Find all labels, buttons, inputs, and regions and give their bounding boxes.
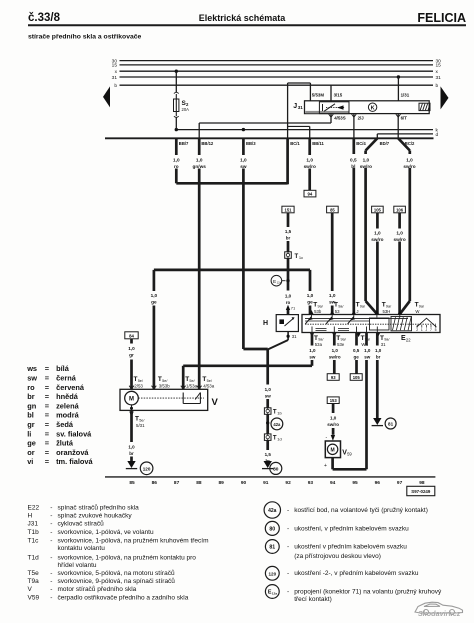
svg-text:třecí kontakt): třecí kontakt) <box>294 596 332 603</box>
svg-text:-: - <box>287 525 289 532</box>
svg-text:1b: 1b <box>277 411 282 416</box>
svg-text:BC/4: BC/4 <box>356 141 366 146</box>
svg-text:motor stíračů předního skla: motor stíračů předního skla <box>58 585 137 593</box>
svg-text:žlutá: žlutá <box>56 439 74 448</box>
svg-text:zelená: zelená <box>56 401 79 410</box>
svg-text:BB/11: BB/11 <box>312 141 324 146</box>
svg-text:31: 31 <box>292 334 297 339</box>
svg-text:53: 53 <box>335 309 340 314</box>
svg-text:4/53a: 4/53a <box>203 383 215 388</box>
svg-text:153: 153 <box>330 398 338 403</box>
svg-text:-: - <box>50 594 52 601</box>
svg-text:=: = <box>45 374 50 383</box>
svg-text:42a: 42a <box>268 508 277 514</box>
svg-text:90: 90 <box>241 480 247 486</box>
svg-text:svorkovnice, 9-pólová, na spín: svorkovnice, 9-pólová, na spínači stírač… <box>58 577 176 585</box>
svg-text:31: 31 <box>381 342 386 347</box>
svg-text:-: - <box>50 537 52 544</box>
svg-text:svorkovnice, 1-pólová, ve vola: svorkovnice, 1-pólová, ve volantu <box>58 529 154 536</box>
svg-text:V: V <box>28 586 33 593</box>
svg-text:bl: bl <box>27 411 34 420</box>
svg-text:svorkovnice, 1-pólová, na pruž: svorkovnice, 1-pólová, na pružném kruhov… <box>58 537 209 544</box>
svg-text:7: 7 <box>430 328 432 332</box>
svg-text:cyklovač stíračů: cyklovač stíračů <box>58 520 105 528</box>
svg-text:31: 31 <box>298 105 304 110</box>
svg-text:=: = <box>45 439 50 448</box>
svg-text:1,0: 1,0 <box>363 158 370 163</box>
svg-text:ro: ro <box>27 383 35 392</box>
svg-text:1/53a: 1/53a <box>186 383 198 388</box>
svg-text:T: T <box>273 409 277 415</box>
svg-text:b: b <box>114 83 117 89</box>
svg-text:98: 98 <box>419 480 425 486</box>
svg-text:5/31: 5/31 <box>136 423 145 428</box>
svg-text:=: = <box>45 420 50 429</box>
svg-text:gr: gr <box>27 420 35 429</box>
svg-text:9a/: 9a/ <box>360 304 366 308</box>
svg-text:-: - <box>50 521 52 528</box>
svg-text:1,0: 1,0 <box>364 348 371 353</box>
svg-text:120: 120 <box>143 466 151 471</box>
svg-text:T1d: T1d <box>28 555 40 562</box>
svg-text:ro: ro <box>174 164 179 169</box>
svg-text:tm. fialová: tm. fialová <box>56 457 93 466</box>
svg-text:=: = <box>45 457 50 466</box>
svg-text:BB/3: BB/3 <box>246 141 256 146</box>
svg-text:propojení (konektor 71) na vol: propojení (konektor 71) na volantu (pruž… <box>294 588 442 595</box>
svg-text:96: 96 <box>375 480 381 486</box>
svg-text:T1b: T1b <box>28 529 40 536</box>
svg-text:ge: ge <box>353 354 359 359</box>
svg-text:(za přístrojovou deskou vlevo): (za přístrojovou deskou vlevo) <box>294 553 381 560</box>
svg-text:0,5: 0,5 <box>353 348 360 353</box>
svg-text:81: 81 <box>388 422 394 427</box>
svg-text:1,0: 1,0 <box>309 348 316 353</box>
svg-text:T: T <box>273 435 277 441</box>
svg-text:1,0: 1,0 <box>307 293 314 298</box>
svg-text:=: = <box>45 392 50 401</box>
svg-text:3/15: 3/15 <box>334 92 343 97</box>
svg-text:ge: ge <box>27 439 36 448</box>
svg-text:1,0: 1,0 <box>196 158 203 163</box>
svg-text:1,5: 1,5 <box>285 229 292 234</box>
svg-text:sw/ro: sw/ro <box>327 422 339 427</box>
svg-text:hřídel volantu: hřídel volantu <box>58 562 97 569</box>
svg-text:M: M <box>331 447 335 453</box>
svg-text:ge: ge <box>307 299 313 304</box>
svg-text:b: b <box>436 83 439 89</box>
svg-text:59: 59 <box>347 452 352 457</box>
svg-text:-: - <box>50 570 52 577</box>
svg-text:T9a: T9a <box>28 578 40 585</box>
svg-text:22: 22 <box>406 338 411 343</box>
svg-text:T: T <box>295 254 299 260</box>
svg-text:K: K <box>371 105 375 111</box>
svg-text:gn/ws: gn/ws <box>193 164 207 169</box>
svg-text:2/53: 2/53 <box>134 383 143 388</box>
svg-text:sw/ro: sw/ro <box>329 354 341 359</box>
svg-text:-: - <box>50 555 52 562</box>
svg-text:12a: 12a <box>277 281 282 285</box>
svg-text:modrá: modrá <box>56 411 79 420</box>
svg-text:0,5: 0,5 <box>350 158 357 163</box>
svg-text:120: 120 <box>268 571 276 576</box>
svg-text:T1c: T1c <box>28 537 40 544</box>
svg-text:4/53S: 4/53S <box>334 116 346 121</box>
svg-text:S97-0249: S97-0249 <box>411 489 431 494</box>
svg-text:M: M <box>129 397 134 403</box>
svg-text:sw: sw <box>265 393 272 398</box>
svg-text:5e/: 5e/ <box>207 379 213 383</box>
svg-text:červená: červená <box>56 383 85 392</box>
svg-text:105: 105 <box>374 208 382 213</box>
svg-text:1,0: 1,0 <box>330 416 337 421</box>
svg-text:2: 2 <box>416 328 418 332</box>
svg-text:sw: sw <box>27 374 37 383</box>
svg-text:černá: černá <box>56 374 77 383</box>
svg-text:kostřicí bod, na volantové tyč: kostřicí bod, na volantové tyči (pružný … <box>294 507 428 514</box>
svg-text:-: - <box>287 507 289 514</box>
svg-text:85: 85 <box>330 208 335 213</box>
svg-text:=: = <box>45 364 50 373</box>
svg-text:1,0: 1,0 <box>374 231 381 236</box>
svg-text:sw: sw <box>309 354 316 359</box>
svg-text:sw/ro: sw/ro <box>371 237 383 242</box>
svg-text:6/T: 6/T <box>401 116 408 121</box>
svg-text:81: 81 <box>269 545 275 551</box>
svg-text:151: 151 <box>285 208 293 213</box>
svg-text:1,0: 1,0 <box>306 158 313 163</box>
svg-text:88: 88 <box>196 480 202 486</box>
svg-text:ro: ro <box>286 300 291 305</box>
svg-text:ge: ge <box>151 299 157 304</box>
svg-text:BD/7: BD/7 <box>380 141 390 146</box>
svg-text:J: J <box>356 309 358 314</box>
svg-text:J31: J31 <box>28 521 39 528</box>
svg-text:1,0: 1,0 <box>406 158 413 163</box>
svg-text:BC/1: BC/1 <box>290 141 300 146</box>
svg-text:BB/12: BB/12 <box>201 141 214 146</box>
svg-text:vi: vi <box>27 457 33 466</box>
svg-text:9a/: 9a/ <box>419 304 425 308</box>
svg-text:d: d <box>436 132 439 138</box>
svg-text:stírače předního skla a ostřik: stírače předního skla a ostřikovače <box>28 34 142 41</box>
svg-text:1c: 1c <box>299 255 303 260</box>
svg-text:71: 71 <box>291 306 296 311</box>
svg-text:5e/: 5e/ <box>162 379 168 383</box>
svg-text:oranžová: oranžová <box>56 448 89 457</box>
svg-text:T5e: T5e <box>28 570 40 577</box>
svg-text:=: = <box>45 429 50 438</box>
svg-text:1,0: 1,0 <box>285 294 292 299</box>
svg-text:br: br <box>376 354 381 359</box>
svg-text:1,0: 1,0 <box>151 293 158 298</box>
svg-text:li: li <box>27 429 31 438</box>
svg-text:1,0: 1,0 <box>329 293 336 298</box>
svg-text:89: 89 <box>219 480 225 486</box>
svg-text:br: br <box>129 451 134 456</box>
svg-text:FELICIA: FELICIA <box>417 11 466 25</box>
svg-text:V59: V59 <box>28 594 40 601</box>
svg-text:gn: gn <box>27 401 37 410</box>
svg-text:85: 85 <box>129 480 135 486</box>
svg-text:V: V <box>212 397 219 408</box>
svg-text:+: + <box>324 463 327 469</box>
svg-text:ws: ws <box>26 364 37 373</box>
svg-text:93: 93 <box>331 375 336 380</box>
svg-text:84: 84 <box>129 333 134 338</box>
svg-text:31: 31 <box>112 75 118 81</box>
svg-text:53a: 53a <box>315 342 323 347</box>
svg-text:sw/ro: sw/ro <box>304 164 316 169</box>
svg-text:br: br <box>27 392 35 401</box>
svg-text:15: 15 <box>436 63 442 69</box>
svg-text:20A: 20A <box>182 107 190 112</box>
svg-text:97: 97 <box>397 480 403 486</box>
svg-text:1/31: 1/31 <box>401 93 410 98</box>
svg-text:svorkovnice, 5-pólová, na moto: svorkovnice, 5-pólová, na motoru stíračů <box>58 569 175 577</box>
svg-text:ukostření v předním kabelovém: ukostření v předním kabelovém svazku <box>294 543 407 550</box>
svg-text:1: 1 <box>421 328 423 332</box>
svg-text:1,0: 1,0 <box>332 348 339 353</box>
svg-text:42a: 42a <box>273 422 281 427</box>
svg-text:92: 92 <box>285 480 291 486</box>
svg-text:53e: 53e <box>337 342 345 347</box>
svg-text:sw: sw <box>364 354 371 359</box>
svg-text:Elektrická schémata: Elektrická schémata <box>199 13 287 23</box>
svg-text:12a: 12a <box>272 591 277 595</box>
svg-text:čerpadlo ostřikovače předního: čerpadlo ostřikovače předního a zadního … <box>58 594 189 601</box>
svg-text:86: 86 <box>152 480 158 486</box>
svg-text:bílá: bílá <box>56 364 70 373</box>
svg-text:J: J <box>426 328 428 332</box>
svg-text:BB/7: BB/7 <box>179 141 189 146</box>
svg-text:-: - <box>50 529 52 536</box>
svg-text:106: 106 <box>396 208 404 213</box>
svg-text:kontaktu volantu: kontaktu volantu <box>58 545 106 552</box>
svg-text:87: 87 <box>174 480 180 486</box>
svg-text:hnědá: hnědá <box>56 392 79 401</box>
svg-text:spínač stíračů předního skla: spínač stíračů předního skla <box>58 504 140 512</box>
svg-text:5/53M: 5/53M <box>312 92 325 97</box>
svg-text:gr: gr <box>129 352 134 357</box>
svg-text:91: 91 <box>263 480 269 486</box>
svg-text:2/J: 2/J <box>358 116 365 121</box>
svg-text:3/53b: 3/53b <box>159 383 171 388</box>
svg-text:E22: E22 <box>28 505 40 512</box>
svg-text:-: - <box>287 543 289 550</box>
svg-text:53H: 53H <box>383 309 391 314</box>
svg-text:Skodavirt.cz: Skodavirt.cz <box>418 609 461 618</box>
svg-text:sv. fialová: sv. fialová <box>56 429 92 438</box>
svg-text:1,0: 1,0 <box>240 158 247 163</box>
svg-text:spínač zvukové houkačky: spínač zvukové houkačky <box>58 513 133 520</box>
svg-text:-: - <box>50 586 52 593</box>
svg-text:105: 105 <box>353 375 361 380</box>
svg-text:=: = <box>45 383 50 392</box>
svg-text:=: = <box>45 411 50 420</box>
svg-text:94: 94 <box>330 480 336 486</box>
svg-text:31: 31 <box>436 75 442 81</box>
svg-text:95: 95 <box>352 480 358 486</box>
svg-text:ukostření -2-, v předním kabel: ukostření -2-, v předním kabelovém svazk… <box>294 570 419 577</box>
svg-text:5: 5 <box>435 328 437 332</box>
svg-text:-: - <box>50 505 52 512</box>
svg-text:1,0: 1,0 <box>173 158 180 163</box>
svg-text:šedá: šedá <box>56 420 74 429</box>
svg-text:1,0: 1,0 <box>375 348 382 353</box>
svg-text:-: - <box>287 588 289 595</box>
svg-text:15: 15 <box>112 63 118 69</box>
svg-text:1,0: 1,0 <box>128 346 135 351</box>
svg-text:=: = <box>45 401 50 410</box>
svg-text:1d: 1d <box>277 437 281 442</box>
svg-text:1,5: 1,5 <box>265 452 272 457</box>
svg-text:č.33/8: č.33/8 <box>28 12 61 24</box>
svg-text:1,0: 1,0 <box>128 445 135 450</box>
svg-text:1,0: 1,0 <box>265 387 272 392</box>
svg-text:sw/ro: sw/ro <box>393 237 405 242</box>
svg-text:svorkovnice, 1-pólová, na pruž: svorkovnice, 1-pólová, na pružném kontak… <box>58 555 197 562</box>
svg-text:sw: sw <box>240 164 247 169</box>
svg-text:J: J <box>293 103 297 110</box>
svg-text:or: or <box>27 448 35 457</box>
svg-text:br: br <box>286 235 291 240</box>
svg-text:80: 80 <box>273 466 279 472</box>
svg-text:93: 93 <box>308 480 314 486</box>
svg-text:94: 94 <box>308 192 313 197</box>
svg-text:80: 80 <box>269 526 275 532</box>
svg-text:=: = <box>45 448 50 457</box>
svg-text:-: - <box>50 513 52 520</box>
svg-text:1,0: 1,0 <box>396 231 403 236</box>
svg-text:53b: 53b <box>314 309 322 314</box>
svg-text:H: H <box>263 320 268 327</box>
svg-text:H: H <box>28 513 33 520</box>
svg-text:ukostření, v předním kabelovém: ukostření, v předním kabelovém svazku <box>294 525 409 532</box>
svg-text:-: - <box>50 578 52 585</box>
svg-text:-: - <box>287 570 289 577</box>
